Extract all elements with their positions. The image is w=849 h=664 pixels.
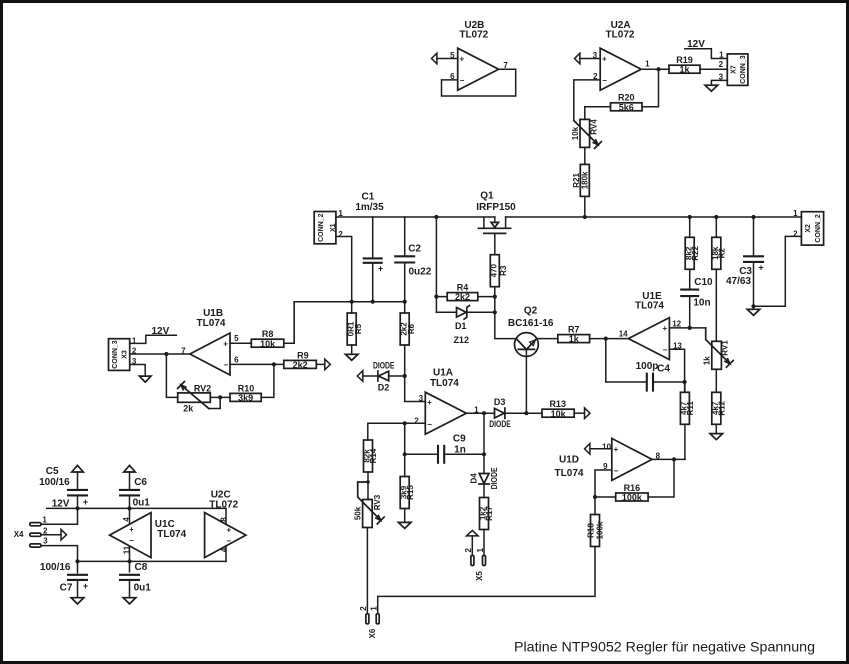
node R4 left junction <box>434 295 438 299</box>
svg-text:1k: 1k <box>569 334 580 344</box>
svg-text:5k6: 5k6 <box>619 102 634 112</box>
node Q2 base junction <box>524 411 528 415</box>
resistor R3 <box>490 255 508 287</box>
wire R7 to U1E pin14 <box>590 338 628 340</box>
svg-text:−: − <box>614 466 619 475</box>
op-amp U2A <box>593 20 650 90</box>
wire X4 pin2 to port <box>41 534 61 536</box>
wire U1B output pin7 to X3 pin2 <box>130 353 190 355</box>
supply arrow above C5 <box>72 465 84 488</box>
svg-text:0u1: 0u1 <box>133 497 151 508</box>
resistor R20 <box>611 93 643 113</box>
svg-text:D3: D3 <box>494 397 506 407</box>
wire U2A pin2 to RV4 wiper <box>574 80 600 121</box>
diode D4 <box>469 467 499 498</box>
ground below X7 <box>705 85 718 91</box>
trimmer RV4 <box>571 119 601 149</box>
svg-text:DIODE: DIODE <box>489 419 511 429</box>
wire R17 to X5 pin1 <box>483 530 485 556</box>
wire U2B pin5 <box>437 58 458 60</box>
svg-text:C6: C6 <box>134 477 147 488</box>
supply label 12V (top) <box>685 39 728 59</box>
svg-text:TL074: TL074 <box>430 378 459 389</box>
svg-text:BC161-16: BC161-16 <box>508 318 554 329</box>
svg-text:R16: R16 <box>624 483 641 493</box>
capacitor C2 <box>394 217 432 302</box>
wire R3 bottom to Q2 collector <box>495 287 516 339</box>
svg-text:R14: R14 <box>369 448 378 463</box>
svg-text:R22: R22 <box>691 245 700 260</box>
wire arrow to X5 pin2 <box>471 536 473 556</box>
svg-text:+: + <box>758 262 763 272</box>
wire X4 pin3 to lower rail <box>41 546 78 562</box>
capacitor C8 <box>119 561 151 597</box>
resistor R12 <box>711 392 726 424</box>
node R10 top junction <box>272 362 276 366</box>
svg-text:CONN_3: CONN_3 <box>740 55 747 84</box>
svg-text:R8: R8 <box>262 329 274 339</box>
svg-text:3: 3 <box>419 394 424 403</box>
svg-text:1m/35: 1m/35 <box>355 202 384 213</box>
svg-text:1: 1 <box>369 606 378 611</box>
svg-text:D2: D2 <box>378 382 390 392</box>
wire X3 pin3 to ground <box>130 365 146 377</box>
node pin12/C10 junction <box>688 326 692 330</box>
svg-text:Platine NTP9052 Regler für neg: Platine NTP9052 Regler für negative Span… <box>514 639 815 655</box>
svg-text:X3: X3 <box>122 350 129 359</box>
svg-text:R11: R11 <box>686 401 695 416</box>
svg-text:5: 5 <box>234 334 239 343</box>
connector X7 <box>719 50 748 85</box>
resistor R10 <box>230 383 261 403</box>
wire R13 to output port <box>574 412 584 414</box>
svg-text:R15: R15 <box>406 485 415 500</box>
svg-text:Q1: Q1 <box>480 191 494 202</box>
svg-text:100k: 100k <box>622 493 643 503</box>
svg-text:Z12: Z12 <box>453 335 469 345</box>
svg-text:+: + <box>427 398 432 407</box>
connector X4 <box>14 516 48 548</box>
node U1D output junction <box>672 457 676 461</box>
connector X2 <box>793 209 823 245</box>
svg-text:R13: R13 <box>549 399 566 409</box>
svg-text:47/63: 47/63 <box>726 276 751 287</box>
svg-text:1: 1 <box>793 209 798 218</box>
wire R2 to RV1 <box>715 269 717 341</box>
svg-text:8: 8 <box>220 517 229 522</box>
wire X4 pin1 to 12V rail <box>41 508 78 524</box>
svg-text:−: − <box>460 76 465 85</box>
svg-text:10k: 10k <box>551 409 567 419</box>
svg-text:TL072: TL072 <box>209 500 238 511</box>
capacitor C4 <box>606 339 685 392</box>
wire U2C pin8 <box>225 508 227 524</box>
svg-text:2k2: 2k2 <box>293 360 308 370</box>
wire X7 pin3 to ground <box>711 80 727 85</box>
op-amp U2B <box>450 20 508 90</box>
wire R10 up to pin6 node <box>261 364 274 397</box>
svg-text:2k2: 2k2 <box>455 292 470 302</box>
wire U2C pin4 <box>225 546 227 561</box>
wire X2 pin2 to C3 bottom <box>754 236 802 306</box>
wire U1C pin11 <box>129 546 131 561</box>
svg-text:6: 6 <box>234 355 239 364</box>
svg-text:+: + <box>459 55 464 64</box>
wire R18 bottom to X6 pin1 <box>378 547 595 614</box>
output port arrow R9 <box>325 359 331 370</box>
diode D2 <box>363 360 405 392</box>
svg-text:C9: C9 <box>453 434 466 445</box>
op-amp U1C power section <box>110 513 187 558</box>
ground below C8 <box>123 598 136 604</box>
svg-text:TL072: TL072 <box>606 30 635 41</box>
wire U2A output pin1 <box>641 68 669 70</box>
op-amp U2C power section <box>205 489 246 557</box>
svg-text:10k: 10k <box>571 126 580 140</box>
node C9 right junction <box>482 452 486 456</box>
wire U1A pin2 <box>368 423 426 440</box>
svg-text:RV2: RV2 <box>194 383 211 393</box>
wire feedback to R16 <box>648 459 674 497</box>
svg-text:10: 10 <box>602 442 611 451</box>
wire RV3 to X6 pin2 <box>366 528 368 614</box>
svg-text:C7: C7 <box>60 583 73 594</box>
svg-text:−: − <box>129 536 134 545</box>
svg-text:X1: X1 <box>330 223 337 232</box>
input port arrow X5 pin2 <box>467 530 479 536</box>
capacitor C3 <box>726 217 764 306</box>
svg-text:+: + <box>378 264 383 274</box>
svg-text:2: 2 <box>338 230 343 239</box>
svg-text:CONN_2: CONN_2 <box>318 213 325 242</box>
svg-text:+: + <box>223 339 228 348</box>
resistor R8 <box>251 329 283 349</box>
ground below R12 <box>710 424 723 439</box>
wire left branch from bus <box>435 217 437 312</box>
svg-text:2: 2 <box>464 547 473 552</box>
svg-text:R2: R2 <box>717 248 726 259</box>
wire main top bus <box>336 216 802 218</box>
svg-text:RV3: RV3 <box>373 494 382 510</box>
output port arrow X4 pin2 <box>61 529 67 540</box>
wire U1D pin9 to R16/R18 node <box>595 470 612 515</box>
wire output node down to D4 <box>483 413 485 473</box>
svg-text:IRFP150: IRFP150 <box>476 202 516 213</box>
wire U1D output pin8 <box>652 458 685 460</box>
resistor R2 <box>711 217 726 269</box>
svg-text:100k: 100k <box>596 521 605 539</box>
ground below R15 <box>398 509 411 529</box>
resistor R14 <box>363 440 378 472</box>
wire lower bus <box>294 302 405 343</box>
resistor R7 <box>558 325 590 345</box>
svg-text:TL074: TL074 <box>157 529 186 540</box>
svg-text:C10: C10 <box>694 277 713 288</box>
wire R20 right to U2A out node <box>642 69 659 107</box>
transistor Q1 IRFP150 <box>476 191 516 255</box>
node D1 right junction <box>493 310 497 314</box>
node pin13/C4/R11 junction <box>683 380 687 384</box>
op-amp U1A <box>414 368 479 435</box>
node U2A out junction <box>656 67 660 71</box>
svg-text:1: 1 <box>338 209 343 218</box>
svg-text:−: − <box>602 76 607 85</box>
svg-text:DIODE: DIODE <box>490 467 499 490</box>
svg-text:1k: 1k <box>702 356 711 365</box>
svg-text:C4: C4 <box>657 364 670 375</box>
svg-text:1: 1 <box>476 547 485 552</box>
ground below R5 <box>345 345 358 360</box>
svg-text:100p: 100p <box>636 361 659 372</box>
svg-text:R7: R7 <box>568 325 580 335</box>
resistor R9 <box>284 350 317 370</box>
svg-text:+: + <box>83 581 88 591</box>
op-amp U1B <box>181 308 239 375</box>
wire R8 to lower bus <box>284 302 294 344</box>
resistor R6 <box>399 302 416 345</box>
wire R19 to X7 pin2 <box>700 68 727 70</box>
node bus junctions <box>434 215 755 219</box>
svg-text:R10: R10 <box>238 383 255 393</box>
svg-text:14: 14 <box>619 330 628 339</box>
node U1A output junction <box>482 411 486 415</box>
op-amp U1E <box>619 291 683 360</box>
capacitor C6 <box>119 477 150 509</box>
trimmer RV1 <box>702 328 733 369</box>
ground below C7 <box>71 598 84 604</box>
node R4/R3 junction <box>493 295 497 299</box>
connector X5 <box>464 547 485 580</box>
resistor R22 <box>684 217 699 269</box>
svg-text:R19: R19 <box>676 55 693 65</box>
node X3 pin2 junction <box>164 352 168 356</box>
svg-text:+: + <box>662 324 667 333</box>
svg-text:Q2: Q2 <box>524 306 538 317</box>
svg-text:RV4: RV4 <box>589 119 598 135</box>
resistor R13 <box>542 399 574 419</box>
capacitor C5 <box>39 466 88 509</box>
node C3 bottom junction <box>751 304 755 308</box>
zener diode D1 Z12 <box>436 306 494 346</box>
wire U2A pin3 <box>580 58 600 60</box>
svg-text:10n: 10n <box>693 298 710 309</box>
svg-text:−: − <box>223 361 228 370</box>
svg-text:+: + <box>226 526 231 535</box>
ground below C3 <box>747 306 760 315</box>
capacitor C9 <box>405 434 484 464</box>
svg-text:0u1: 0u1 <box>134 583 152 594</box>
svg-text:X4: X4 <box>14 530 24 539</box>
input port arrow U1D pin10 <box>585 444 590 455</box>
op-amp U1D <box>555 438 661 480</box>
supply arrow above C6 <box>124 465 136 488</box>
svg-text:R5: R5 <box>354 323 363 334</box>
wire U2B feedback loop pin6-pin7 <box>442 69 516 96</box>
capacitor C10 <box>680 269 713 328</box>
node D2 junction <box>403 374 407 378</box>
svg-text:D4: D4 <box>469 473 478 484</box>
wire X1 pin2 down to lower bus <box>336 237 352 302</box>
svg-text:2: 2 <box>793 230 798 239</box>
input port arrow U2B pin 5 <box>432 53 437 64</box>
svg-text:3: 3 <box>43 537 48 546</box>
svg-text:+: + <box>129 525 134 534</box>
svg-text:X2: X2 <box>805 224 812 233</box>
svg-text:50k: 50k <box>353 506 362 520</box>
svg-text:DIODE: DIODE <box>373 360 395 370</box>
svg-text:R6: R6 <box>407 323 416 334</box>
svg-text:+: + <box>614 445 619 454</box>
transistor Q2 BC161-16 <box>508 306 558 414</box>
svg-text:1: 1 <box>719 50 724 59</box>
svg-text:RV1: RV1 <box>720 340 729 356</box>
svg-text:R9: R9 <box>297 350 309 360</box>
svg-text:1: 1 <box>645 60 650 69</box>
wire U1C pin4 <box>129 508 131 524</box>
svg-text:D1: D1 <box>455 321 467 331</box>
svg-text:470: 470 <box>490 263 499 277</box>
node lower bus junctions <box>350 300 407 304</box>
svg-text:180k: 180k <box>581 171 590 189</box>
wire R20 left to RV4 top <box>585 107 611 120</box>
resistor R17 <box>479 498 494 530</box>
wire U1B pin6 to R9 <box>230 363 284 365</box>
svg-text:U1D: U1D <box>559 454 579 465</box>
svg-text:R17: R17 <box>485 506 494 521</box>
wire U1D pin10 <box>590 448 612 450</box>
node RV2 wiper junction <box>218 395 222 399</box>
svg-text:C2: C2 <box>408 244 421 255</box>
svg-text:CONN_2: CONN_2 <box>815 214 822 243</box>
svg-text:R18: R18 <box>587 523 596 538</box>
lower rail <box>75 559 226 563</box>
svg-text:0u22: 0u22 <box>409 266 432 277</box>
svg-text:TL072: TL072 <box>459 30 488 41</box>
resistor R21 <box>572 164 589 196</box>
resistor R16 <box>595 483 648 503</box>
resistor R15 <box>399 477 414 509</box>
capacitor C1 <box>355 192 384 302</box>
output port arrow R13 <box>585 408 591 419</box>
svg-text:2: 2 <box>414 417 419 426</box>
resistor R5 <box>346 302 363 345</box>
wire R6 down to D2 node and U1A pin3 <box>404 345 406 376</box>
svg-text:2: 2 <box>719 60 724 69</box>
wire R14 to RV3 <box>367 472 369 500</box>
svg-text:−: − <box>427 420 432 429</box>
node C9 left junction <box>403 452 407 456</box>
connector X1 <box>314 209 343 244</box>
input port arrow U2A pin 3 <box>575 53 580 64</box>
svg-text:C1: C1 <box>362 192 375 203</box>
svg-text:+: + <box>602 55 607 64</box>
svg-text:4: 4 <box>220 547 229 552</box>
svg-text:1k: 1k <box>679 65 690 75</box>
svg-text:C8: C8 <box>135 562 148 573</box>
wire RV1 to R12 <box>715 369 717 392</box>
svg-text:3k9: 3k9 <box>238 393 253 403</box>
svg-text:100/16: 100/16 <box>40 562 71 573</box>
svg-text:2k: 2k <box>183 403 194 413</box>
node R14/RV3 wiper junction <box>366 480 369 483</box>
resistor R4 <box>436 283 494 303</box>
wire U1E pin13 down to C4 node <box>669 349 684 392</box>
svg-text:−: − <box>663 345 668 354</box>
connector X3 <box>109 336 137 370</box>
connector X6 <box>359 606 379 639</box>
wire X3 pin2 node down to RV2 <box>166 354 177 397</box>
trimmer RV2 <box>178 382 221 414</box>
resistor R11 <box>680 382 695 424</box>
wire R9 to output port <box>316 363 325 365</box>
svg-text:1: 1 <box>42 516 47 525</box>
wire R21 to main bus <box>584 196 586 217</box>
svg-text:+: + <box>83 497 88 507</box>
svg-text:R4: R4 <box>457 283 469 293</box>
svg-text:R12: R12 <box>717 400 726 415</box>
title text <box>514 639 815 655</box>
capacitor C7 <box>40 561 88 597</box>
resistor R19 <box>669 55 700 75</box>
supply rail 12V (bottom-left) <box>47 498 226 510</box>
svg-text:X5: X5 <box>475 571 484 581</box>
node R7/C4 junction <box>604 337 608 341</box>
input port arrow D2 <box>357 371 363 382</box>
svg-text:TL074: TL074 <box>197 318 226 329</box>
svg-text:CONN_3: CONN_3 <box>112 340 119 369</box>
svg-text:2: 2 <box>359 606 368 611</box>
svg-text:R20: R20 <box>618 93 635 103</box>
wire R11 bottom to U1D output <box>684 424 686 459</box>
svg-text:100/16: 100/16 <box>39 477 70 488</box>
svg-text:C5: C5 <box>46 466 59 477</box>
trimmer RV3 <box>353 482 384 528</box>
wire U1B pin5 to R8 <box>230 342 251 344</box>
svg-text:X7: X7 <box>731 65 738 74</box>
wire D2 node to U1A pin3 <box>405 376 426 402</box>
svg-text:TL074: TL074 <box>555 468 584 479</box>
svg-text:10k: 10k <box>260 339 276 349</box>
resistor R18 <box>587 515 605 547</box>
node pin9/R16/R18 junction <box>593 495 597 499</box>
wire pin2 node down to C9/R15 <box>404 423 406 476</box>
wire U1A output <box>466 412 494 414</box>
svg-text:TL074: TL074 <box>635 301 664 312</box>
svg-text:−: − <box>226 537 231 546</box>
wire RV2 to R10 <box>210 396 230 398</box>
wire U1E pin12 <box>669 327 705 329</box>
svg-text:X6: X6 <box>368 628 377 638</box>
node U1A pin2 junction <box>403 421 407 425</box>
wire RV4 to R21 <box>584 147 586 164</box>
diode D3 <box>489 397 542 429</box>
ground below X3 pin3 <box>139 376 151 382</box>
svg-text:R3: R3 <box>499 265 508 276</box>
supply label 12V (mid-left) <box>130 326 177 343</box>
